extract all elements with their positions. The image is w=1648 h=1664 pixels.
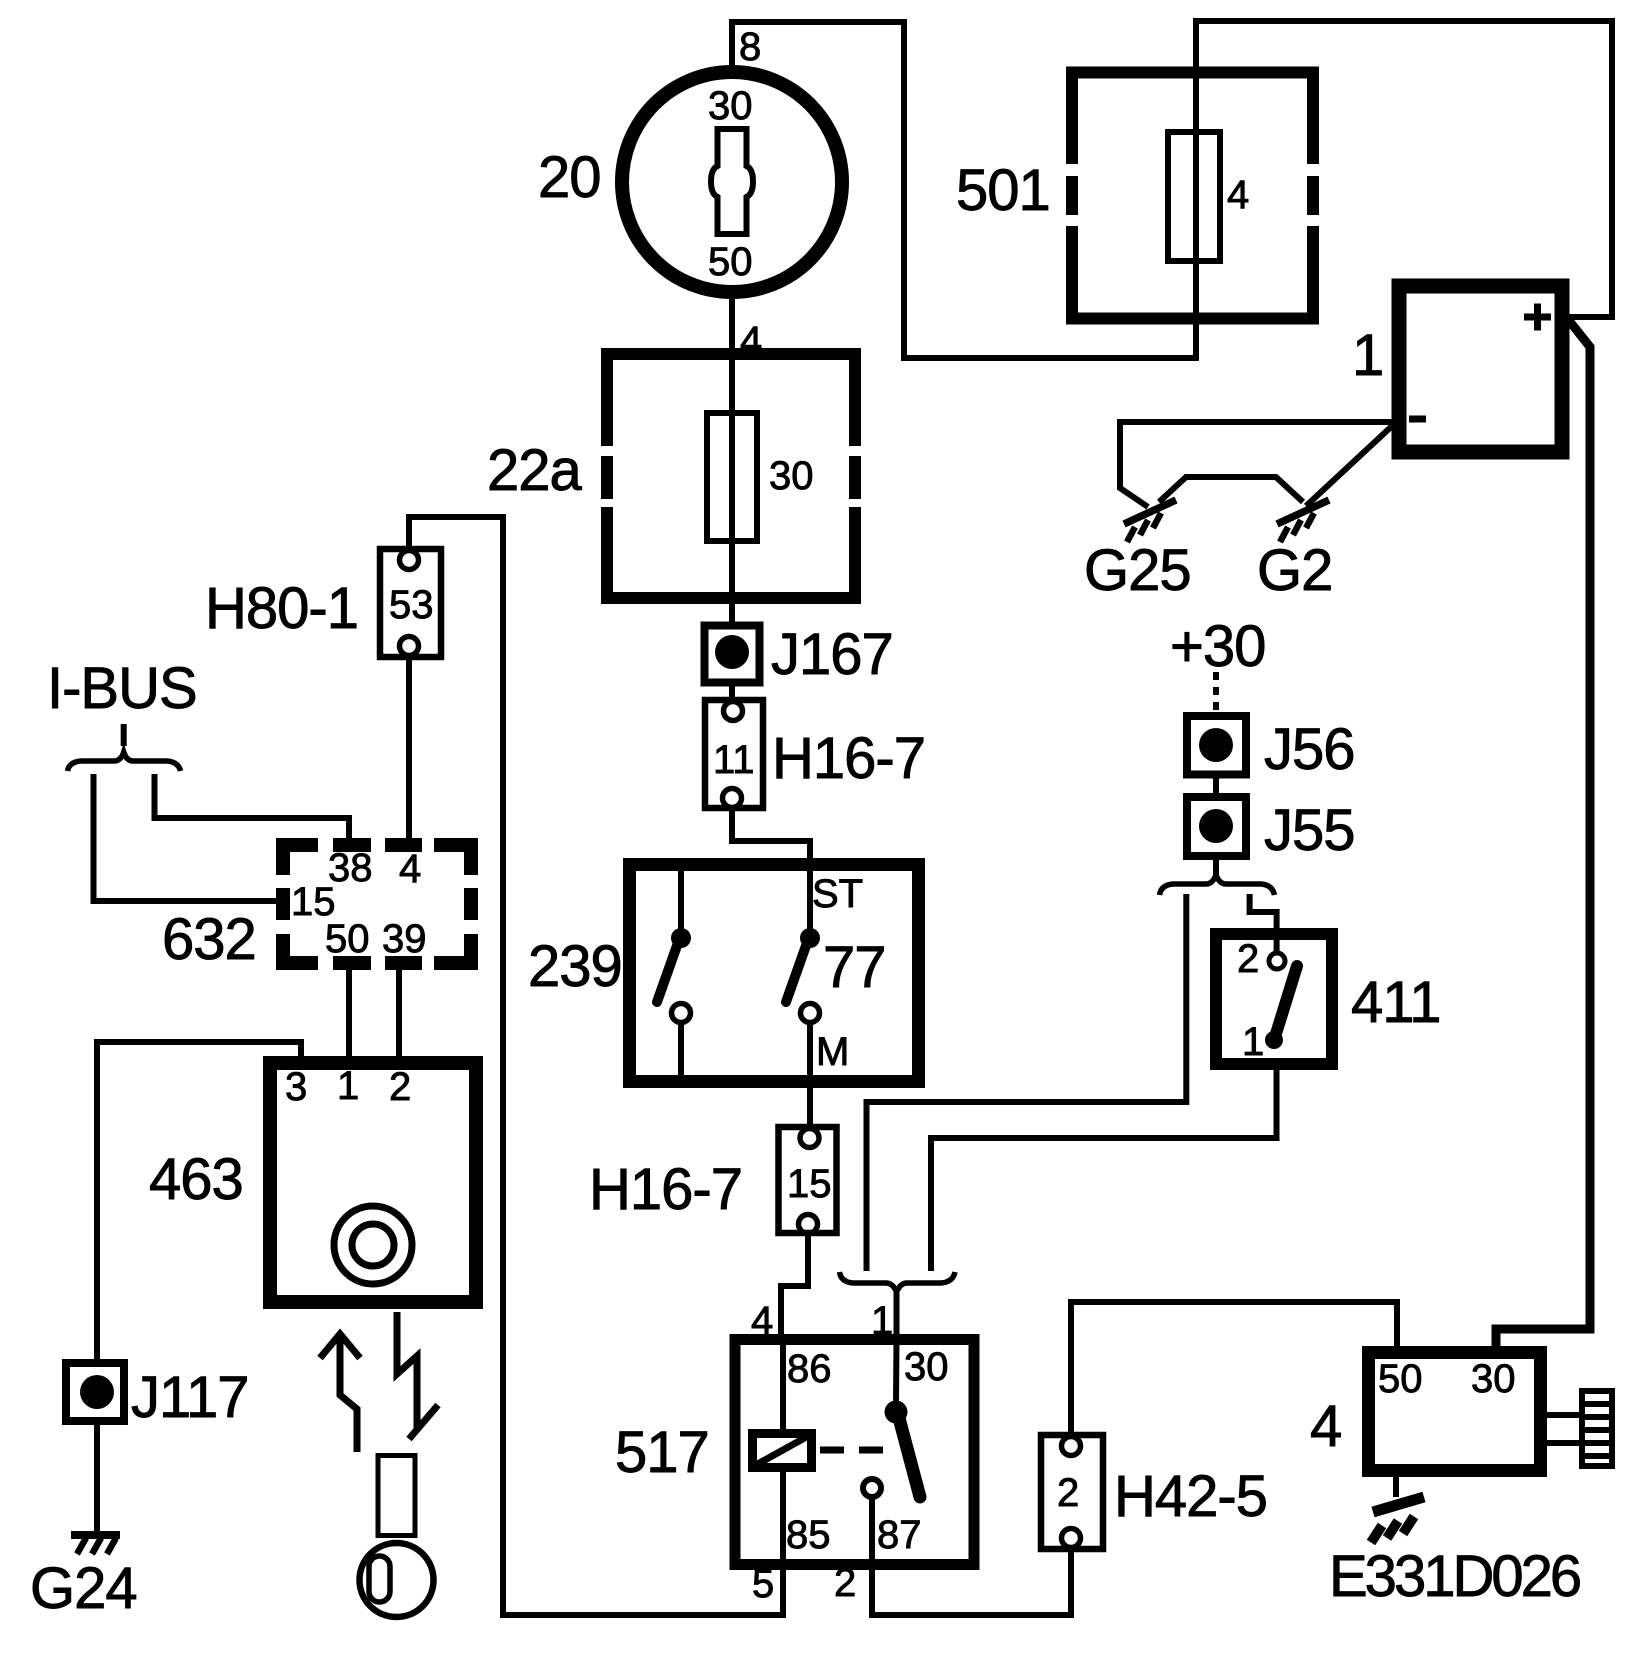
svg-text:50: 50 bbox=[1378, 1357, 1423, 1401]
svg-text:1: 1 bbox=[871, 1299, 893, 1343]
svg-text:J167: J167 bbox=[771, 622, 893, 687]
svg-text:4: 4 bbox=[740, 319, 762, 363]
svg-text:+30: +30 bbox=[1170, 614, 1265, 679]
svg-text:ST: ST bbox=[812, 872, 863, 916]
svg-text:501: 501 bbox=[956, 158, 1050, 223]
svg-text:H42-5: H42-5 bbox=[1114, 1464, 1267, 1529]
svg-text:H80-1: H80-1 bbox=[205, 576, 358, 641]
svg-text:4: 4 bbox=[1227, 173, 1249, 217]
svg-text:77: 77 bbox=[823, 935, 886, 1000]
svg-text:4: 4 bbox=[399, 847, 421, 891]
svg-text:G2: G2 bbox=[1257, 538, 1332, 603]
svg-text:39: 39 bbox=[382, 917, 427, 961]
svg-text:463: 463 bbox=[149, 1147, 243, 1212]
svg-text:E331D026: E331D026 bbox=[1329, 1544, 1580, 1609]
svg-text:4: 4 bbox=[1310, 1394, 1341, 1459]
svg-text:G25: G25 bbox=[1084, 538, 1191, 603]
svg-text:11: 11 bbox=[713, 738, 755, 782]
svg-text:15: 15 bbox=[787, 1162, 832, 1206]
svg-text:87: 87 bbox=[877, 1513, 922, 1557]
svg-text:H16-7: H16-7 bbox=[772, 726, 925, 791]
svg-text:50: 50 bbox=[325, 917, 370, 961]
svg-text:1: 1 bbox=[337, 1064, 359, 1108]
svg-text:4: 4 bbox=[751, 1299, 773, 1343]
svg-text:J55: J55 bbox=[1264, 798, 1355, 863]
svg-text:30: 30 bbox=[769, 454, 814, 498]
svg-text:30: 30 bbox=[1471, 1357, 1516, 1401]
svg-text:517: 517 bbox=[615, 1420, 709, 1485]
svg-text:5: 5 bbox=[752, 1562, 774, 1606]
svg-text:2: 2 bbox=[389, 1065, 411, 1109]
svg-text:632: 632 bbox=[162, 907, 256, 972]
svg-text:239: 239 bbox=[528, 934, 622, 999]
svg-text:J56: J56 bbox=[1264, 717, 1355, 782]
svg-text:20: 20 bbox=[538, 145, 601, 210]
svg-text:G24: G24 bbox=[30, 1556, 137, 1621]
svg-text:22a: 22a bbox=[487, 438, 583, 503]
svg-text:85: 85 bbox=[786, 1513, 831, 1557]
svg-text:30: 30 bbox=[904, 1345, 949, 1389]
svg-text:3: 3 bbox=[285, 1065, 307, 1109]
svg-text:2: 2 bbox=[1057, 1471, 1079, 1515]
svg-text:M: M bbox=[816, 1030, 849, 1074]
svg-text:2: 2 bbox=[1237, 937, 1259, 981]
svg-text:1: 1 bbox=[1352, 323, 1383, 388]
svg-text:I-BUS: I-BUS bbox=[47, 656, 197, 721]
svg-text:86: 86 bbox=[787, 1347, 832, 1391]
svg-text:2: 2 bbox=[834, 1561, 856, 1605]
svg-text:411: 411 bbox=[1351, 970, 1440, 1035]
svg-text:H16-7: H16-7 bbox=[589, 1157, 742, 1222]
svg-text:53: 53 bbox=[389, 583, 434, 627]
svg-text:1: 1 bbox=[1242, 1020, 1264, 1064]
svg-text:50: 50 bbox=[708, 240, 753, 284]
svg-text:30: 30 bbox=[708, 84, 753, 128]
svg-text:J117: J117 bbox=[131, 1365, 248, 1430]
svg-text:8: 8 bbox=[739, 25, 761, 69]
